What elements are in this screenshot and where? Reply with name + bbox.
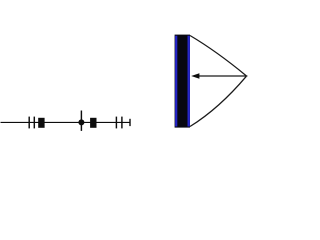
node junction dot xyxy=(78,119,84,125)
force arrowhead xyxy=(191,73,199,78)
terminal tick xyxy=(129,119,131,126)
wire xyxy=(1,121,131,123)
force arrow shaft xyxy=(199,75,248,77)
resistor R2 xyxy=(90,118,96,128)
crystal slab xyxy=(175,35,190,128)
electrode right (blue) xyxy=(188,36,190,127)
resistor R1 xyxy=(38,118,44,128)
electrode left (blue) xyxy=(175,36,177,127)
deflection curve top xyxy=(190,36,246,76)
capacitor C1 xyxy=(29,117,34,129)
deflection curve bottom xyxy=(190,76,246,126)
wire stub xyxy=(80,111,82,131)
capacitor C2 xyxy=(116,117,122,129)
